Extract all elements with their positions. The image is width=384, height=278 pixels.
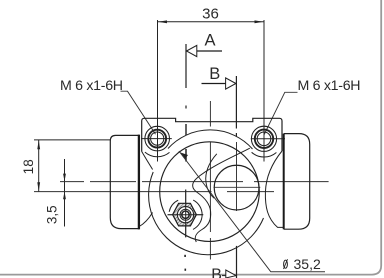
svg-text:3,5: 3,5	[45, 205, 60, 224]
svg-text:M 6 x1-6H: M 6 x1-6H	[298, 78, 361, 94]
svg-text:18: 18	[21, 159, 36, 174]
svg-text:B: B	[209, 65, 220, 83]
svg-text:M 6 x1-6H: M 6 x1-6H	[60, 78, 123, 94]
svg-text:36: 36	[202, 5, 219, 22]
svg-text:35,2: 35,2	[294, 256, 321, 272]
svg-text:A: A	[204, 31, 215, 49]
svg-text:B: B	[211, 267, 222, 278]
